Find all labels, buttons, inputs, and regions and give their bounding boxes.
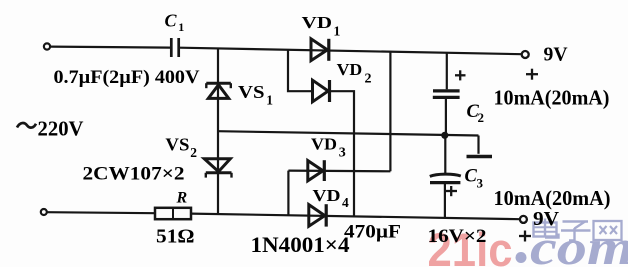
svg-text:51Ω: 51Ω: [156, 226, 195, 248]
wire VD3 row: [288, 170, 390, 173]
capacitor C1: [170, 38, 173, 57]
input terminal top: [44, 43, 50, 49]
svg-text:10mA(20mA): 10mA(20mA): [494, 85, 610, 109]
svg-text:R: R: [176, 190, 188, 207]
svg-text:2: 2: [478, 110, 485, 125]
zener VS1: [208, 85, 228, 99]
polarity + C2: [455, 70, 466, 80]
wire mid rail: [218, 131, 479, 135]
watermark char dian: [534, 219, 559, 238]
svg-text:VD: VD: [313, 186, 341, 205]
wire top rail: [180, 48, 522, 55]
svg-text:0.7µF(2µF) 400V: 0.7µF(2µF) 400V: [54, 68, 201, 88]
svg-text:1: 1: [178, 20, 184, 34]
label ~220V: [17, 123, 36, 128]
svg-text:2: 2: [365, 72, 372, 87]
svg-text:9V: 9V: [544, 45, 568, 66]
output terminal +9V: [522, 51, 529, 58]
diode VD1: [311, 39, 327, 61]
svg-text:3: 3: [339, 146, 346, 161]
wire VD3 cathode up to top rail: [389, 51, 391, 171]
capacitor C2: [446, 53, 448, 89]
wire VD3 anode branch from bottom rail: [287, 171, 289, 216]
svg-text:C: C: [165, 11, 178, 31]
svg-text:10mA(20mA): 10mA(20mA): [494, 186, 611, 210]
svg-text:VS: VS: [238, 82, 265, 102]
svg-text:VS: VS: [165, 135, 189, 155]
svg-text:VD: VD: [302, 13, 332, 32]
svg-text:16V×2: 16V×2: [428, 226, 487, 247]
diode VD3: [308, 161, 323, 181]
output terminal -9V: [520, 216, 527, 223]
svg-text:VD: VD: [311, 134, 337, 153]
svg-text:1N4001×4: 1N4001×4: [251, 232, 350, 257]
capacitor C3: [444, 136, 446, 174]
wire bottom-left to R: [47, 212, 155, 213]
svg-text:2: 2: [190, 145, 197, 160]
watermark char wang: [594, 221, 622, 240]
wire VD2 cathode down to bottom rail: [330, 91, 354, 216]
svg-text:1: 1: [333, 25, 340, 40]
svg-text:9V: 9V: [533, 209, 559, 230]
svg-text:470µF: 470µF: [344, 222, 401, 243]
svg-text:VD: VD: [337, 60, 363, 79]
watermark char zi: [561, 222, 591, 241]
svg-text:3: 3: [477, 176, 484, 191]
wire VS chain vertical: [217, 48, 219, 214]
watermark .com: [516, 252, 527, 263]
svg-text:4: 4: [342, 195, 349, 210]
ground: [477, 136, 479, 154]
polarity + output top: [526, 69, 538, 80]
svg-text:2CW107×2: 2CW107×2: [83, 164, 185, 185]
input terminal bottom: [41, 209, 47, 215]
wire top-left to C1: [50, 47, 170, 48]
wire VD2 branch from top rail: [288, 50, 312, 92]
junction dot: [441, 132, 448, 139]
polarity + C3: [446, 186, 458, 196]
svg-text:220V: 220V: [38, 117, 84, 141]
resistor R: [155, 208, 191, 219]
diode VD2: [313, 80, 329, 102]
zener VS2: [204, 159, 230, 172]
svg-text:1: 1: [266, 93, 273, 108]
diode VD4: [309, 205, 325, 227]
polarity + output bottom: [519, 231, 531, 242]
wire bottom rail: [191, 214, 520, 220]
